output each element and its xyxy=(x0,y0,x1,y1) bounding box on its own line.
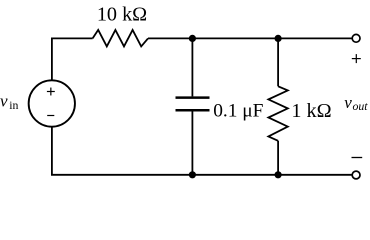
svg-text:1 kΩ: 1 kΩ xyxy=(291,100,331,122)
svg-text:v: v xyxy=(0,91,8,110)
terminal: vout negative (open circle) xyxy=(352,171,360,179)
voltage source V1 circle xyxy=(29,80,75,126)
junction dot: bottom node at R2 xyxy=(275,171,282,178)
svg-text:in: in xyxy=(9,98,18,112)
junction dot: top node at C1 xyxy=(189,35,196,42)
resistor R1 (10 kΩ) zigzag xyxy=(93,30,148,47)
wire: top rail from R1 to output terminal xyxy=(148,37,352,39)
label vin xyxy=(0,91,18,112)
label: plus sign at output xyxy=(352,54,361,63)
wire: R2 bottom lead xyxy=(277,141,279,175)
label: minus sign at output xyxy=(352,157,363,159)
voltage source V1 minus sign xyxy=(47,115,54,117)
capacitor C1 bottom plate xyxy=(176,109,210,112)
resistor R2 (1 kΩ) vertical zigzag xyxy=(268,86,287,141)
wire: capacitor C1 top lead xyxy=(191,38,193,96)
voltage source V1 plus sign xyxy=(47,88,55,96)
svg-text:10 kΩ: 10 kΩ xyxy=(97,4,147,26)
capacitor C1 top plate xyxy=(176,96,210,99)
junction dot: top node at R2 xyxy=(275,35,282,42)
wire: vin top lead and top-left corner to R1 xyxy=(52,38,93,80)
wire: capacitor C1 bottom lead xyxy=(191,111,193,174)
terminal: vout positive (open circle) xyxy=(352,34,360,42)
wire: vin bottom lead, bottom-left corner and bottom rail xyxy=(52,126,352,174)
svg-text:0.1 μF: 0.1 μF xyxy=(213,101,263,122)
junction dot: bottom node at C1 xyxy=(189,171,196,178)
svg-text:out: out xyxy=(353,99,369,113)
wire: R2 top lead xyxy=(277,38,279,86)
label vout xyxy=(344,93,368,113)
svg-text:v: v xyxy=(344,93,352,112)
